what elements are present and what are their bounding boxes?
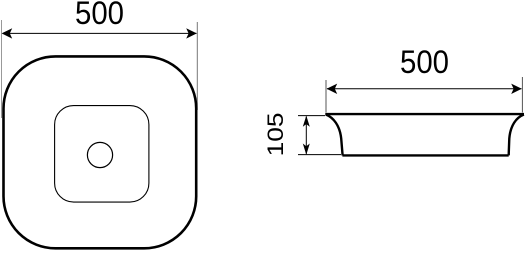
svg-text:500: 500 — [75, 0, 124, 31]
svg-text:500: 500 — [400, 44, 449, 80]
svg-text:105: 105 — [263, 112, 288, 156]
